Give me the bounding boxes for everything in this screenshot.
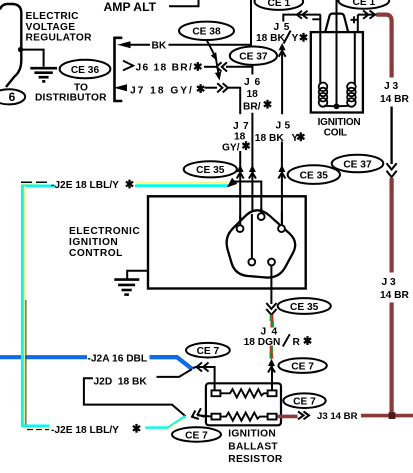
svg-text:CE 1: CE 1 xyxy=(352,0,375,8)
CE 38 leader arrows xyxy=(207,40,216,56)
connector CE 1 oval (left) xyxy=(254,0,303,10)
svg-text:6: 6 xyxy=(9,90,16,104)
svg-text:J: J xyxy=(276,121,282,132)
svg-text:CE 37: CE 37 xyxy=(343,159,372,170)
svg-text:5: 5 xyxy=(285,121,291,132)
svg-text:18: 18 xyxy=(234,132,246,143)
svg-text:BALLAST: BALLAST xyxy=(228,441,278,452)
top resistor element xyxy=(212,390,221,396)
svg-text:-J2E 18 LBL/Y: -J2E 18 LBL/Y xyxy=(51,425,119,436)
wire J6 18 BR (left run) xyxy=(123,61,133,71)
connector CE 35 oval (right) xyxy=(288,165,340,184)
svg-text:18 DGN: 18 DGN xyxy=(244,337,281,348)
pin 3 xyxy=(278,225,285,232)
svg-text:18: 18 xyxy=(247,89,259,100)
bracket to distributor xyxy=(115,38,123,101)
J4 colored segment (green/red) xyxy=(270,315,272,322)
svg-text:6: 6 xyxy=(255,77,261,88)
pin 2 xyxy=(258,213,265,220)
svg-text:IGNITION: IGNITION xyxy=(69,237,118,248)
connector CE 35 oval (left) xyxy=(184,161,237,177)
connector CE 7 oval (bottom left) xyxy=(172,427,221,441)
connector CE 37 oval (left) xyxy=(230,47,277,65)
up arrow on J4 xyxy=(268,359,275,373)
svg-text:ELECTRIC: ELECTRIC xyxy=(26,11,80,22)
wire J3 14 BR (right side, brown) xyxy=(377,15,392,78)
svg-text:-J2A 16 DBL: -J2A 16 DBL xyxy=(88,353,148,364)
node on regulator xyxy=(18,47,23,52)
wire J7 18 GY (left run) xyxy=(114,84,127,91)
wire BK xyxy=(117,41,130,48)
wire J7 vertical to pin 1 xyxy=(239,87,241,115)
inline connector chevrons (CE 7) on J2E/J2D join xyxy=(190,408,204,421)
distributor connector blob xyxy=(227,210,296,277)
pin 5 xyxy=(268,259,275,266)
svg-text:RESISTOR: RESISTOR xyxy=(228,454,283,465)
svg-text:J: J xyxy=(244,77,250,88)
svg-text:18 BK: 18 BK xyxy=(256,33,286,44)
voltage regulator (partial body at left edge) xyxy=(0,4,21,87)
svg-text:7: 7 xyxy=(243,121,249,132)
svg-text:Y: Y xyxy=(292,33,299,44)
arrow from J2E to control xyxy=(227,178,238,188)
svg-text:18 BK: 18 BK xyxy=(255,133,285,144)
svg-text:CE 37: CE 37 xyxy=(239,52,268,63)
wire regulator to ground xyxy=(21,50,43,67)
svg-text:CONTROL: CONTROL xyxy=(69,248,123,259)
svg-text:J: J xyxy=(274,22,280,33)
chevrons down on J3 xyxy=(387,163,397,177)
pin 4 xyxy=(248,259,255,266)
label IGNITION BALLAST RESISTOR xyxy=(228,428,283,465)
svg-text:J: J xyxy=(261,326,267,337)
ignition ballast resistor box xyxy=(206,383,281,425)
arrowhead on J7 wire xyxy=(237,165,244,179)
svg-text:J2D 18 BK: J2D 18 BK xyxy=(94,377,148,388)
svg-text:CE 7: CE 7 xyxy=(291,361,314,372)
wire J4 from pin 5 down xyxy=(270,265,272,304)
cyan wire J2E (bottom run) xyxy=(23,424,50,427)
svg-text:ELECTRONIC: ELECTRONIC xyxy=(69,226,140,237)
ignition coil xyxy=(311,32,363,112)
svg-text:J 3: J 3 xyxy=(382,277,396,288)
cyan wire J2E (top run) xyxy=(21,181,49,183)
wire J6 vertical to pin 4 xyxy=(251,66,253,75)
svg-text:CE 35: CE 35 xyxy=(300,170,329,181)
connector CE 38 oval xyxy=(179,22,234,40)
wire box to ground xyxy=(127,271,148,279)
pin 1 xyxy=(237,225,244,232)
wire J5 from coil negative xyxy=(283,14,320,16)
J4 colored segment 2 xyxy=(269,346,271,353)
connector CE 37 oval (right) xyxy=(332,155,384,173)
inline connector chevrons (CE 38) on J6 xyxy=(216,62,227,71)
connector CE 36 xyxy=(60,60,111,79)
up arrow on J5 xyxy=(279,43,286,57)
coil windings xyxy=(319,32,321,84)
svg-text:BR/: BR/ xyxy=(243,102,261,113)
svg-text:J7 18 GY/: J7 18 GY/ xyxy=(130,86,194,97)
svg-text:J 3: J 3 xyxy=(384,81,398,92)
blue wire J2A 16 DBL xyxy=(0,355,87,359)
svg-text:J3 14 BR: J3 14 BR xyxy=(317,411,358,422)
svg-text:CE 7: CE 7 xyxy=(185,430,208,441)
svg-text:CE 7: CE 7 xyxy=(293,397,316,408)
svg-text:GY/: GY/ xyxy=(222,142,240,153)
ground (regulator) xyxy=(30,68,57,81)
connector CE 7 oval (top) xyxy=(186,343,230,358)
wire J3 14 BR (bottom) xyxy=(277,415,297,419)
arrowhead on J5 wire xyxy=(278,165,285,179)
inline connector chevrons (CE 7) on J2A xyxy=(197,363,209,372)
connector oval 6 xyxy=(0,89,25,104)
svg-text:CE 38: CE 38 xyxy=(192,27,221,38)
svg-text:VOLTAGE: VOLTAGE xyxy=(26,22,76,33)
svg-text:CE 35: CE 35 xyxy=(196,165,225,176)
connector CE 35 oval (mid) xyxy=(278,298,331,314)
label ELECTRONIC IGNITION CONTROL xyxy=(69,226,140,259)
svg-text:IGNITION: IGNITION xyxy=(228,428,276,439)
junction on J3 xyxy=(389,412,396,419)
svg-text:CE 36: CE 36 xyxy=(71,65,100,76)
svg-text:DISTRIBUTOR: DISTRIBUTOR xyxy=(35,92,107,103)
arrowhead on J6 wire xyxy=(249,165,256,179)
electronic ignition control box xyxy=(148,196,306,288)
ground (control box) xyxy=(114,280,139,295)
label ELECTRIC VOLTAGE REGULATOR xyxy=(26,11,93,44)
cyan wire J2E vertical xyxy=(21,185,24,427)
bottom resistor element xyxy=(212,414,221,420)
connector CE 7 oval (upper right) xyxy=(278,358,326,373)
svg-text:-J2E 18 LBL/Y: -J2E 18 LBL/Y xyxy=(51,180,119,191)
svg-text:REGULATOR: REGULATOR xyxy=(26,33,93,44)
svg-text:CE 7: CE 7 xyxy=(197,346,220,357)
svg-text:14 BR: 14 BR xyxy=(380,290,410,301)
connector CE 7 oval (lower right) xyxy=(283,393,325,408)
svg-text:R: R xyxy=(293,337,301,348)
svg-text:J6 18 BR/: J6 18 BR/ xyxy=(136,63,194,74)
svg-text:5: 5 xyxy=(284,22,290,33)
svg-text:14 BR: 14 BR xyxy=(380,94,410,105)
slash segment of J5 wire xyxy=(284,31,291,44)
svg-text:J: J xyxy=(233,121,239,132)
coil terminals xyxy=(312,18,319,20)
connector CE 1 oval (right) xyxy=(338,0,389,9)
svg-text:CE 1: CE 1 xyxy=(267,0,290,9)
svg-text:COIL: COIL xyxy=(324,127,347,138)
svg-text:AMP ALT: AMP ALT xyxy=(104,0,157,14)
svg-text:4: 4 xyxy=(272,326,278,337)
wire J2D 18 BK xyxy=(84,378,186,416)
wires inside blob xyxy=(251,214,253,259)
inline connector chevrons (CE 38) on J7 xyxy=(217,83,228,92)
svg-text:CE 35: CE 35 xyxy=(290,302,319,313)
svg-text:BK: BK xyxy=(152,41,167,52)
